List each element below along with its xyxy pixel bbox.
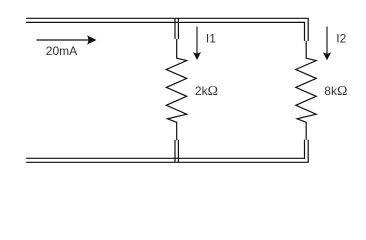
svg-text:8kΩ: 8kΩ: [324, 84, 347, 99]
arrow I2 branch current: [323, 27, 331, 61]
resistor R1 2kOhm: [166, 39, 186, 140]
resistor R2 8kOhm: [296, 41, 316, 140]
svg-text:I2: I2: [336, 32, 346, 46]
arrow 20mA source current: [37, 35, 97, 44]
wire top inner line: [26, 22, 304, 41]
wire stub bottom middle right line: [177, 140, 179, 162]
svg-text:20mA: 20mA: [46, 44, 77, 58]
wire stub bottom middle left line: [174, 140, 176, 162]
svg-text:I1: I1: [206, 31, 216, 45]
arrow I1 branch current: [193, 27, 201, 61]
wire top outer line: [26, 18, 308, 41]
wire stub top middle left line: [174, 18, 176, 39]
wire stub top middle right line: [177, 18, 179, 39]
svg-text:2kΩ: 2kΩ: [195, 84, 218, 99]
wire bottom inner line: [26, 140, 304, 159]
wire bottom outer line: [26, 140, 308, 163]
